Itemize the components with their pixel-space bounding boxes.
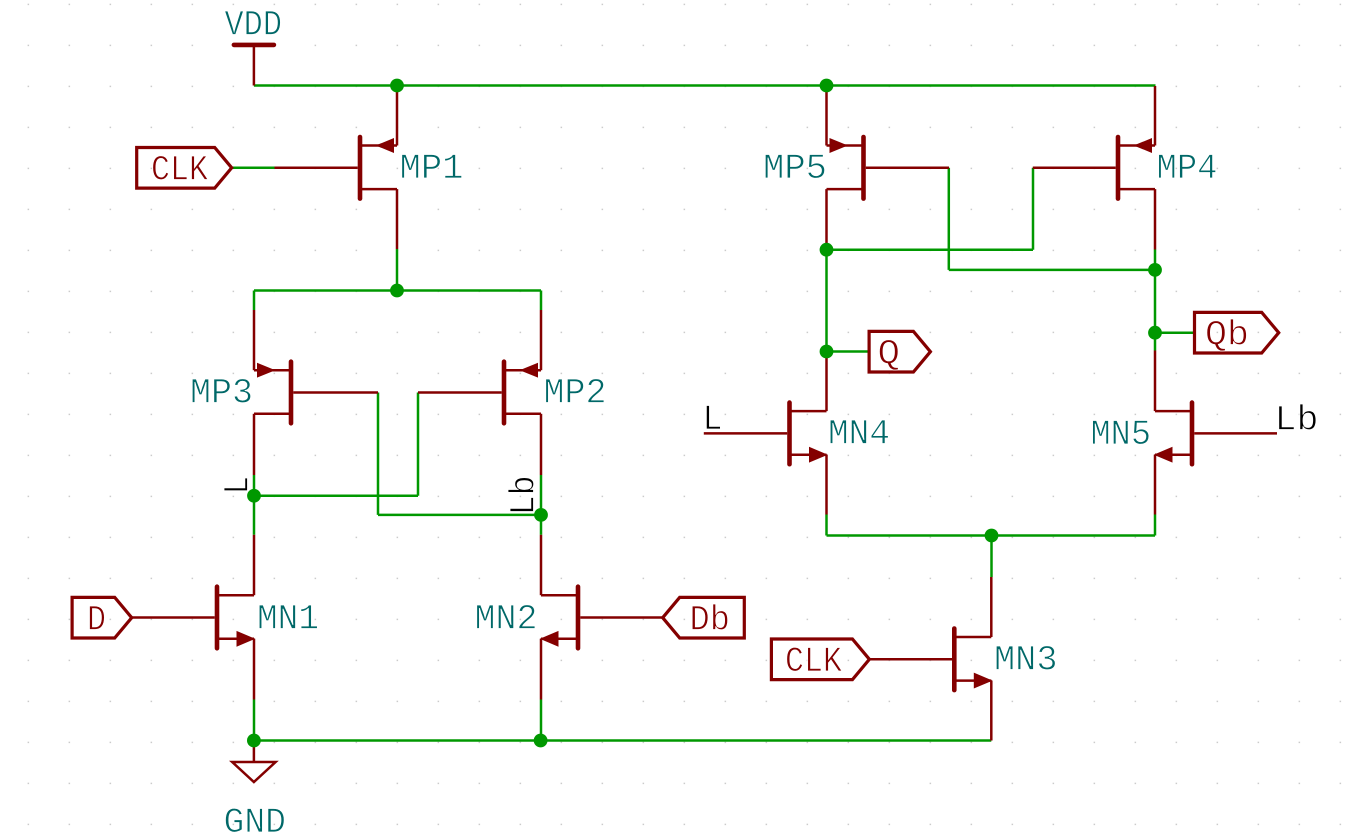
reference MN3 [994,640,1058,680]
junction VDD-MP5 [820,79,834,93]
reference MP4 [1157,149,1218,189]
svg-text:MN4: MN4 [828,415,890,455]
svg-text:Db: Db [690,601,731,641]
local label L at node L [218,476,258,494]
junction Q upper [820,243,834,257]
svg-text:MN2: MN2 [475,600,538,640]
wire MN5 source down [1154,515,1157,536]
transistor MP1 [275,86,398,249]
wire Q vertical [825,250,828,352]
wire latch top rail [254,289,541,292]
svg-text:CLK: CLK [151,151,208,191]
wire MN4 source down [825,515,828,536]
svg-text:Qb: Qb [1205,316,1249,356]
reference MN1 [257,600,319,640]
wire cross to Q node [827,248,1034,251]
wire tail horizontal [827,534,1156,537]
global label Db [663,597,745,640]
wire tail to MN3 [990,536,993,578]
power symbol VDD [234,45,274,86]
reference MP3 [190,374,253,414]
global label Qb [1195,312,1279,355]
local label Lb at node Lb [505,475,545,515]
wire Qb tap [1155,331,1195,334]
reference MN5 [1091,415,1152,455]
local label L at MN4 gate [703,400,723,440]
transistor MN1 [132,535,254,700]
junction latch rail [390,284,404,298]
node Qb junction [1148,326,1162,340]
svg-text:Q: Q [878,335,901,375]
svg-text:VDD: VDD [225,6,283,46]
svg-text:MP1: MP1 [400,149,464,189]
wire MN2 source down [540,700,543,741]
node Lb junction [534,508,548,522]
wire L horizontal [254,495,418,498]
reference MP1 [400,149,464,189]
transistor MN5 [1155,351,1277,515]
wire MP2 gate vertical [417,393,420,496]
transistor MN2 [541,535,663,700]
reference MN2 [475,600,538,640]
reference MP2 [544,374,607,414]
svg-text:MN1: MN1 [257,600,319,640]
wire MP4 gate vertical [1032,168,1035,250]
transistor MP3 [254,310,378,475]
wire MN1 source down [253,700,256,741]
ground [232,741,275,783]
wire latch rail to MP3 [253,291,256,311]
wire Qb vertical [1154,250,1157,333]
junction VDD-MP1 [390,79,404,93]
svg-text:L: L [703,400,723,440]
wire MP5 gate vertical [948,168,951,270]
wire CLK to MP1 gate [232,167,275,170]
transistor MN4 [704,353,827,515]
transistor MP5 [827,86,950,250]
wire MP1 drain to node [396,249,399,291]
svg-text:Lb: Lb [1275,401,1319,441]
svg-text:MP4: MP4 [1157,149,1218,189]
global label CLK [137,148,232,191]
svg-text:MN5: MN5 [1091,415,1152,455]
global label CLK2 [771,639,869,682]
svg-text:MP2: MP2 [544,374,607,414]
junction MN2 source [534,734,548,748]
wire Lb horizontal [378,514,541,517]
local label Lb at MN5 gate [1275,401,1319,441]
junction GND [247,734,261,748]
VDD value text [225,6,283,46]
svg-text:CLK: CLK [785,642,842,682]
junction tail [985,529,999,543]
svg-text:D: D [87,601,106,641]
svg-text:GND: GND [224,803,287,835]
junction Qb upper [1148,263,1162,277]
wire MP2 drain to Lb [540,475,543,535]
svg-text:MN3: MN3 [994,640,1058,680]
node Q junction [820,345,834,359]
wire MP3 gate vertical [377,393,380,515]
node L junction [247,489,261,503]
wire bottom rail [254,739,991,742]
wire cross to Qb node [949,269,1155,272]
transistor MN3 [869,577,991,741]
svg-text:MP3: MP3 [190,374,253,414]
GND value text [224,803,287,835]
transistor MP4 [1033,86,1155,250]
wire Q tap [827,350,870,353]
reference MP5 [763,149,827,189]
global label D [72,597,132,640]
transistor MP2 [418,310,541,475]
reference MN4 [828,415,890,455]
wire VDD rail [254,84,1156,87]
wire latch rail to MP2 [540,291,543,311]
svg-text:MP5: MP5 [763,149,827,189]
global label Q [869,331,930,374]
wire MP3 drain to L [253,475,256,535]
wire Qb to MN5 [1154,333,1157,351]
